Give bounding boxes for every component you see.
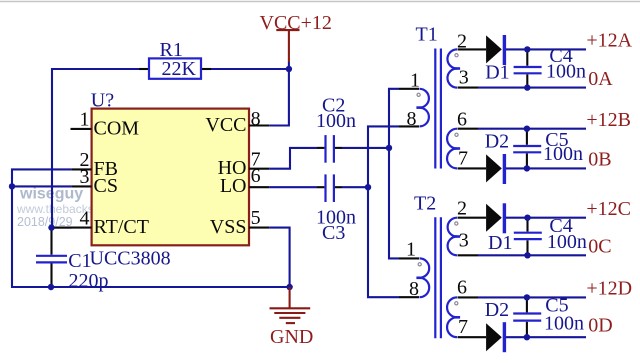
wire C3 to T1 T2 pin8 junction (342, 186, 368, 188)
T1 secondary winding A (447, 49, 457, 87)
wire VCC node down to pin 8 (269, 62, 289, 126)
diode D2 (485, 130, 509, 184)
pin 3 CS stub (72, 185, 92, 187)
pin 7 HO stub (249, 168, 269, 170)
T1 pin 3 lead (458, 87, 479, 89)
wire junction down to T2 pin 8 (368, 187, 399, 297)
wire junction up to T1 pin 1 (389, 89, 399, 148)
T1 pin 7 lead (458, 167, 487, 169)
diode D1 lower (486, 203, 512, 254)
T2 secondary winding D (447, 297, 457, 337)
svg-text:1: 1 (80, 109, 90, 131)
svg-text:2: 2 (457, 30, 467, 52)
capacitor C2 (316, 95, 356, 163)
node D bottom (524, 334, 530, 340)
svg-text:5: 5 (251, 207, 261, 229)
watermark wiseguy (16, 186, 140, 230)
svg-text:COM: COM (94, 117, 140, 139)
wire R1 left rail (52, 69, 149, 228)
node B top (524, 126, 530, 132)
svg-text:7: 7 (458, 316, 468, 338)
svg-text:C3: C3 (322, 222, 345, 244)
node FB CS (9, 183, 15, 189)
node D top (524, 294, 530, 300)
svg-text:0B: 0B (588, 149, 611, 171)
wire C2 to T1 T2 pin1 junction (342, 147, 389, 149)
winding B polarity dot (455, 133, 458, 136)
svg-text:LO: LO (220, 175, 247, 197)
svg-text:U?: U? (91, 89, 114, 111)
wire B bottom (506, 167, 586, 169)
wire RT/CT to junction (52, 227, 72, 229)
capacitor C5 (513, 129, 583, 169)
wire D bottom (506, 336, 586, 338)
wire HO to C2 (269, 148, 317, 169)
node C2 primaries (386, 145, 392, 151)
svg-text:T2: T2 (414, 193, 436, 215)
svg-text:100n: 100n (543, 143, 583, 165)
node GND rail (286, 284, 292, 290)
svg-text:1: 1 (406, 239, 416, 261)
svg-text:1: 1 (410, 70, 420, 92)
node C top (524, 215, 530, 221)
capacitor C1 (36, 228, 109, 292)
transformer T2 (399, 193, 441, 339)
wire junction down to T2 pin 1 (389, 148, 399, 259)
svg-text:6: 6 (457, 276, 467, 298)
T2 pin 8 lead (399, 296, 419, 298)
pin 6 LO stub (249, 186, 269, 188)
T2 primary polarity dot (418, 263, 421, 266)
svg-text:T1: T1 (416, 24, 438, 46)
svg-text:D2: D2 (485, 299, 509, 321)
svg-text:22K: 22K (162, 58, 197, 80)
wire LO to C3 (269, 186, 317, 188)
capacitor C5 lower (513, 295, 584, 338)
T2 secondary winding C (448, 218, 457, 256)
svg-text:VCC: VCC (205, 114, 246, 136)
pin 2 FB stub (72, 168, 92, 170)
T2 pin 1 lead (399, 257, 419, 259)
node RT/CT C1 (48, 224, 54, 230)
transformer T1 (399, 24, 441, 169)
power VCC+12 (260, 12, 332, 62)
T2 pin 2 lead (458, 217, 487, 219)
wire FB to left rail (12, 169, 72, 287)
T2 pin 7 lead (458, 336, 487, 338)
T1 pin 1 lead (399, 88, 419, 90)
diode D2 lower (485, 299, 509, 352)
T1 primary winding (420, 89, 429, 127)
channel A secondary winding T1 pins 2 3 (447, 30, 486, 88)
svg-text:D1: D1 (488, 232, 512, 254)
svg-text:GND: GND (270, 326, 313, 348)
capacitor C4 lower (514, 215, 587, 255)
pin 4 RT/CT stub (52, 227, 92, 229)
wire C top (506, 217, 586, 219)
wire C bottom (478, 254, 586, 256)
svg-text:4: 4 (80, 207, 90, 229)
svg-text:100n: 100n (544, 313, 584, 335)
node VCC R1 (286, 66, 292, 72)
capacitor C3 (316, 174, 356, 244)
capacitor C4 (514, 45, 586, 88)
svg-text:8: 8 (251, 108, 261, 130)
channel B secondary winding T1 pins 6 7 (447, 108, 486, 169)
core (434, 49, 436, 169)
pin 1 COM stub (71, 128, 92, 130)
svg-text:0D: 0D (588, 315, 612, 337)
svg-text:100n: 100n (546, 61, 586, 83)
winding C polarity dot (455, 222, 458, 225)
T1 pin 6 lead (458, 128, 479, 130)
svg-text:0C: 0C (588, 235, 611, 257)
svg-text:7: 7 (458, 147, 468, 169)
svg-text:8: 8 (407, 108, 417, 130)
T1 pin 2 lead (458, 48, 487, 50)
svg-text:6: 6 (457, 108, 467, 130)
svg-text:220p: 220p (69, 270, 109, 292)
svg-text:D1: D1 (485, 62, 509, 84)
wire A top (506, 48, 586, 50)
svg-text:0A: 0A (588, 68, 613, 90)
wire junction up to T1 pin 8 (368, 126, 399, 187)
ground (270, 287, 314, 348)
resistor R1 (139, 39, 211, 80)
svg-text:3: 3 (459, 67, 469, 89)
diode D1 (485, 35, 509, 84)
svg-text:+12A: +12A (586, 30, 632, 52)
core (434, 217, 436, 338)
wire D top (478, 296, 586, 298)
channel D secondary winding T2 pins 6 7 (447, 276, 486, 337)
pin 8 VCC stub (249, 124, 269, 126)
T2 primary winding (420, 258, 430, 297)
svg-text:RT/CT: RT/CT (94, 216, 149, 238)
svg-text:3: 3 (459, 230, 469, 252)
svg-text:8: 8 (409, 278, 419, 300)
wire CS stub (12, 185, 72, 187)
top border edge (0, 1, 640, 3)
svg-text:100n: 100n (547, 231, 587, 253)
wire B top (478, 128, 586, 130)
svg-text:VCC+12: VCC+12 (260, 12, 332, 34)
svg-text:UCC3808: UCC3808 (90, 247, 171, 269)
svg-text:CS: CS (94, 175, 118, 197)
wire R1 right to VCC node (201, 68, 289, 70)
svg-text:+12B: +12B (586, 109, 631, 131)
T2 pin 3 lead (458, 254, 479, 256)
T1 secondary winding B (447, 129, 457, 169)
svg-text:C1: C1 (68, 250, 91, 272)
node C1 rail (48, 284, 54, 290)
svg-text:VSS: VSS (210, 216, 247, 238)
svg-text:100n: 100n (316, 110, 356, 132)
node A top (524, 46, 530, 52)
T2 pin 6 lead (458, 296, 479, 298)
winding D polarity dot (455, 302, 458, 305)
node C3 primaries (365, 184, 371, 190)
svg-text:2: 2 (457, 198, 467, 220)
winding A polarity dot (455, 54, 458, 57)
svg-text:+12C: +12C (586, 198, 631, 220)
node B bottom (524, 165, 530, 171)
channel C secondary winding T2 pins 2 3 (448, 198, 487, 256)
node C bottom (524, 252, 530, 258)
node A bottom (524, 84, 530, 90)
svg-text:+12D: +12D (586, 278, 632, 300)
wire bottom rail (51, 286, 290, 288)
svg-text:3: 3 (80, 166, 90, 188)
IC U? UCC3808 body (92, 109, 249, 246)
T1 primary polarity dot (417, 93, 420, 96)
wire A bottom (478, 87, 586, 89)
svg-text:6: 6 (251, 165, 261, 187)
T1 pin 8 lead (399, 125, 419, 127)
pin 5 VSS stub (249, 227, 269, 229)
wire VSS to ground (269, 228, 289, 287)
svg-text:D2: D2 (485, 130, 509, 152)
